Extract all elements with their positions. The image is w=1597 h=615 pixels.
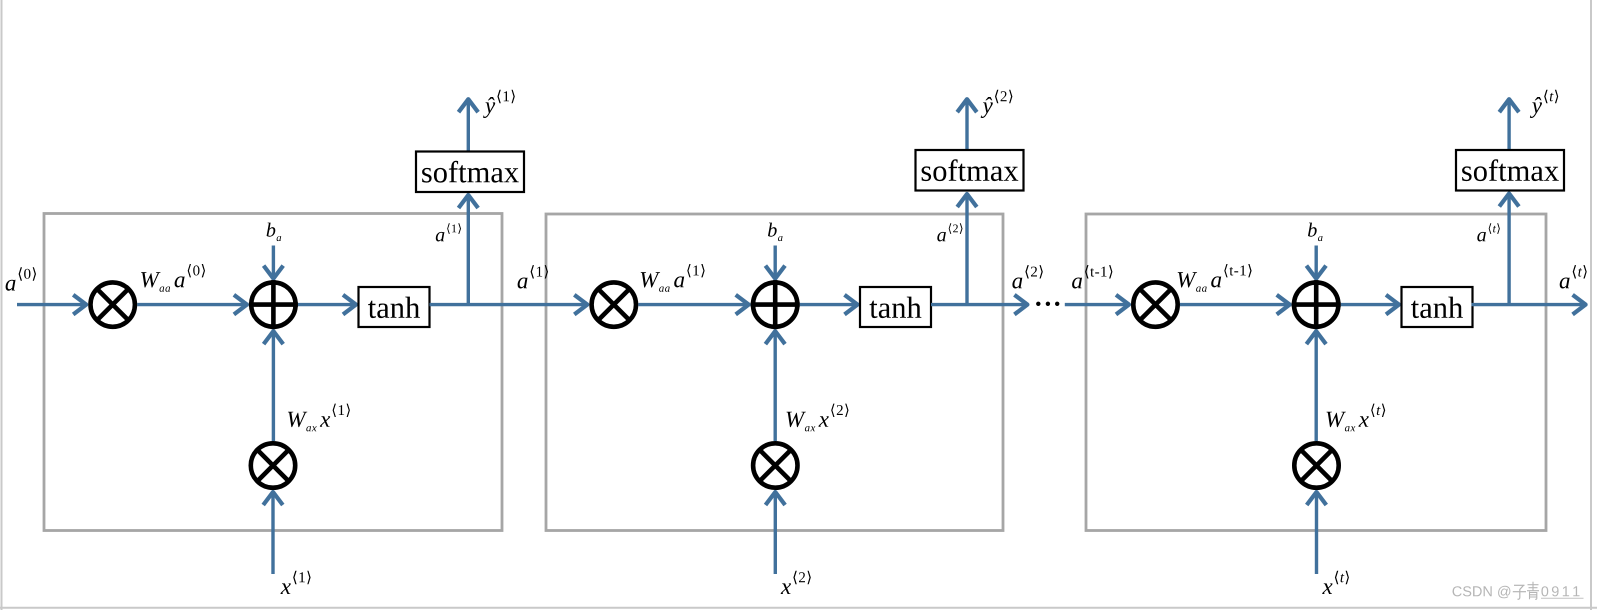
- label Wax x<t> cell 3: [1327, 404, 1386, 432]
- watermark glyph qing: [1527, 582, 1539, 600]
- wire b_a arrow into add cell 2: [765, 246, 785, 280]
- tanh box cell 2: [860, 287, 931, 327]
- add node cell 2: [751, 280, 800, 329]
- multiply node Wax cell 2: [753, 443, 797, 487]
- label Waa a<t-1> cell 3: [1178, 264, 1252, 292]
- label x<t> input cell 3: [1322, 571, 1349, 594]
- wire a-input arrow into cell 3: [1065, 295, 1130, 315]
- multiply node Waa cell 2: [592, 282, 636, 326]
- cell 3 box: [1086, 214, 1546, 531]
- wire to softmax cell 1: [459, 194, 479, 304]
- wire to softmax cell 3: [1499, 193, 1519, 305]
- node a<1> label between cells: [518, 265, 548, 288]
- label a<t> riser cell 3: [1477, 223, 1500, 241]
- label Wax x<1> cell 1: [288, 404, 350, 432]
- label b_a cell 3: [1308, 223, 1323, 242]
- wire mul-to-add arrow cell 2: [638, 295, 749, 315]
- tanh box cell 3: [1402, 287, 1473, 327]
- multiply node Wax cell 1: [251, 443, 295, 487]
- wire b_a arrow into add cell 3: [1306, 246, 1326, 280]
- label Waa a<0> cell 1: [141, 264, 205, 292]
- softmax box cell 3: [1456, 150, 1564, 191]
- watermark underline: [1541, 597, 1584, 599]
- node a<2> label after cell 2: [1012, 265, 1042, 288]
- wire b_a arrow into add cell 1: [264, 246, 284, 280]
- multiply node Waa cell 3: [1133, 282, 1177, 326]
- screenshot left border: [1, 0, 3, 610]
- add node cell 3: [1292, 280, 1341, 329]
- ellipsis dots between cell 2 and cell 3: [1036, 302, 1059, 306]
- wire x-input arrow cell 1: [263, 491, 283, 574]
- label x<1> input cell 1: [281, 571, 311, 594]
- label yhat<t> cell 3: [1530, 90, 1558, 118]
- label b_a cell 1: [267, 223, 282, 242]
- wire yhat arrow cell 3: [1499, 98, 1519, 150]
- wire add-to-tanh arrow cell 1: [298, 295, 357, 315]
- wire to softmax cell 2: [957, 193, 977, 304]
- screenshot bottom border: [0, 607, 1597, 609]
- wire x-input arrow cell 3: [1307, 491, 1327, 574]
- label yhat<2> cell 2: [981, 90, 1013, 118]
- softmax box cell 1: [416, 152, 524, 193]
- wire mul-to-add arrow cell 1: [137, 295, 248, 315]
- wire lower-mul to add arrow cell 1: [264, 330, 284, 441]
- multiply node Wax cell 3: [1294, 443, 1338, 487]
- softmax box cell 2: [916, 150, 1024, 191]
- node a<t-1> label before cell 3: [1072, 265, 1112, 288]
- multiply node Waa cell 1: [91, 282, 135, 326]
- wire a-input arrow into cell 2: [430, 295, 589, 315]
- wire add-to-tanh arrow cell 3: [1341, 295, 1400, 315]
- wire x-input arrow cell 2: [766, 491, 786, 574]
- watermark CSDN text: [1453, 586, 1511, 599]
- cell 2 box: [546, 214, 1003, 531]
- wire yhat arrow cell 1: [459, 98, 479, 151]
- node a<0> input label: [6, 267, 36, 290]
- node a<t> output label: [1560, 265, 1587, 288]
- wire mul-to-add arrow cell 3: [1180, 295, 1291, 315]
- wire yhat arrow cell 2: [957, 98, 977, 150]
- label b_a cell 2: [768, 223, 783, 242]
- screenshot right border: [1590, 0, 1592, 610]
- label x<2> input cell 2: [781, 571, 811, 594]
- wire lower-mul to add arrow cell 3: [1306, 330, 1326, 441]
- wire add-to-tanh arrow cell 2: [800, 295, 859, 315]
- label Waa a<1> cell 2: [641, 264, 705, 292]
- wire a<t> output arrow from cell 3: [1472, 295, 1587, 315]
- watermark 0911: [1541, 586, 1579, 596]
- label Wax x<2> cell 2: [787, 404, 849, 432]
- wire a<2> output arrow from cell 2: [931, 295, 1028, 315]
- cell 1 box: [44, 214, 502, 531]
- wire lower-mul to add arrow cell 2: [765, 330, 785, 441]
- label yhat<1> cell 1: [483, 90, 515, 118]
- watermark glyph zi: [1513, 585, 1526, 599]
- tanh box cell 1: [359, 287, 430, 327]
- label a<1> riser cell 1: [436, 223, 461, 241]
- label a<2> riser cell 2: [937, 223, 962, 241]
- wire a-input arrow into cell 1: [17, 295, 87, 315]
- add node cell 1: [249, 280, 298, 329]
